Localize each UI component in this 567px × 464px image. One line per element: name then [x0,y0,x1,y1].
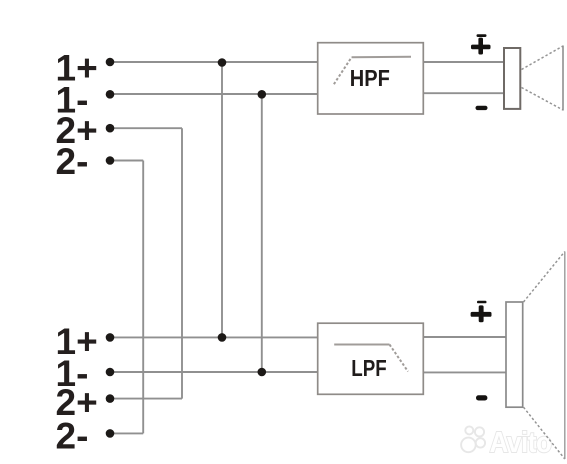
svg-text:2-: 2- [56,141,89,182]
svg-text:Avito: Avito [490,427,552,459]
svg-text:2-: 2- [56,415,89,456]
svg-text:HPF: HPF [350,65,390,91]
svg-text:LPF: LPF [351,355,386,381]
